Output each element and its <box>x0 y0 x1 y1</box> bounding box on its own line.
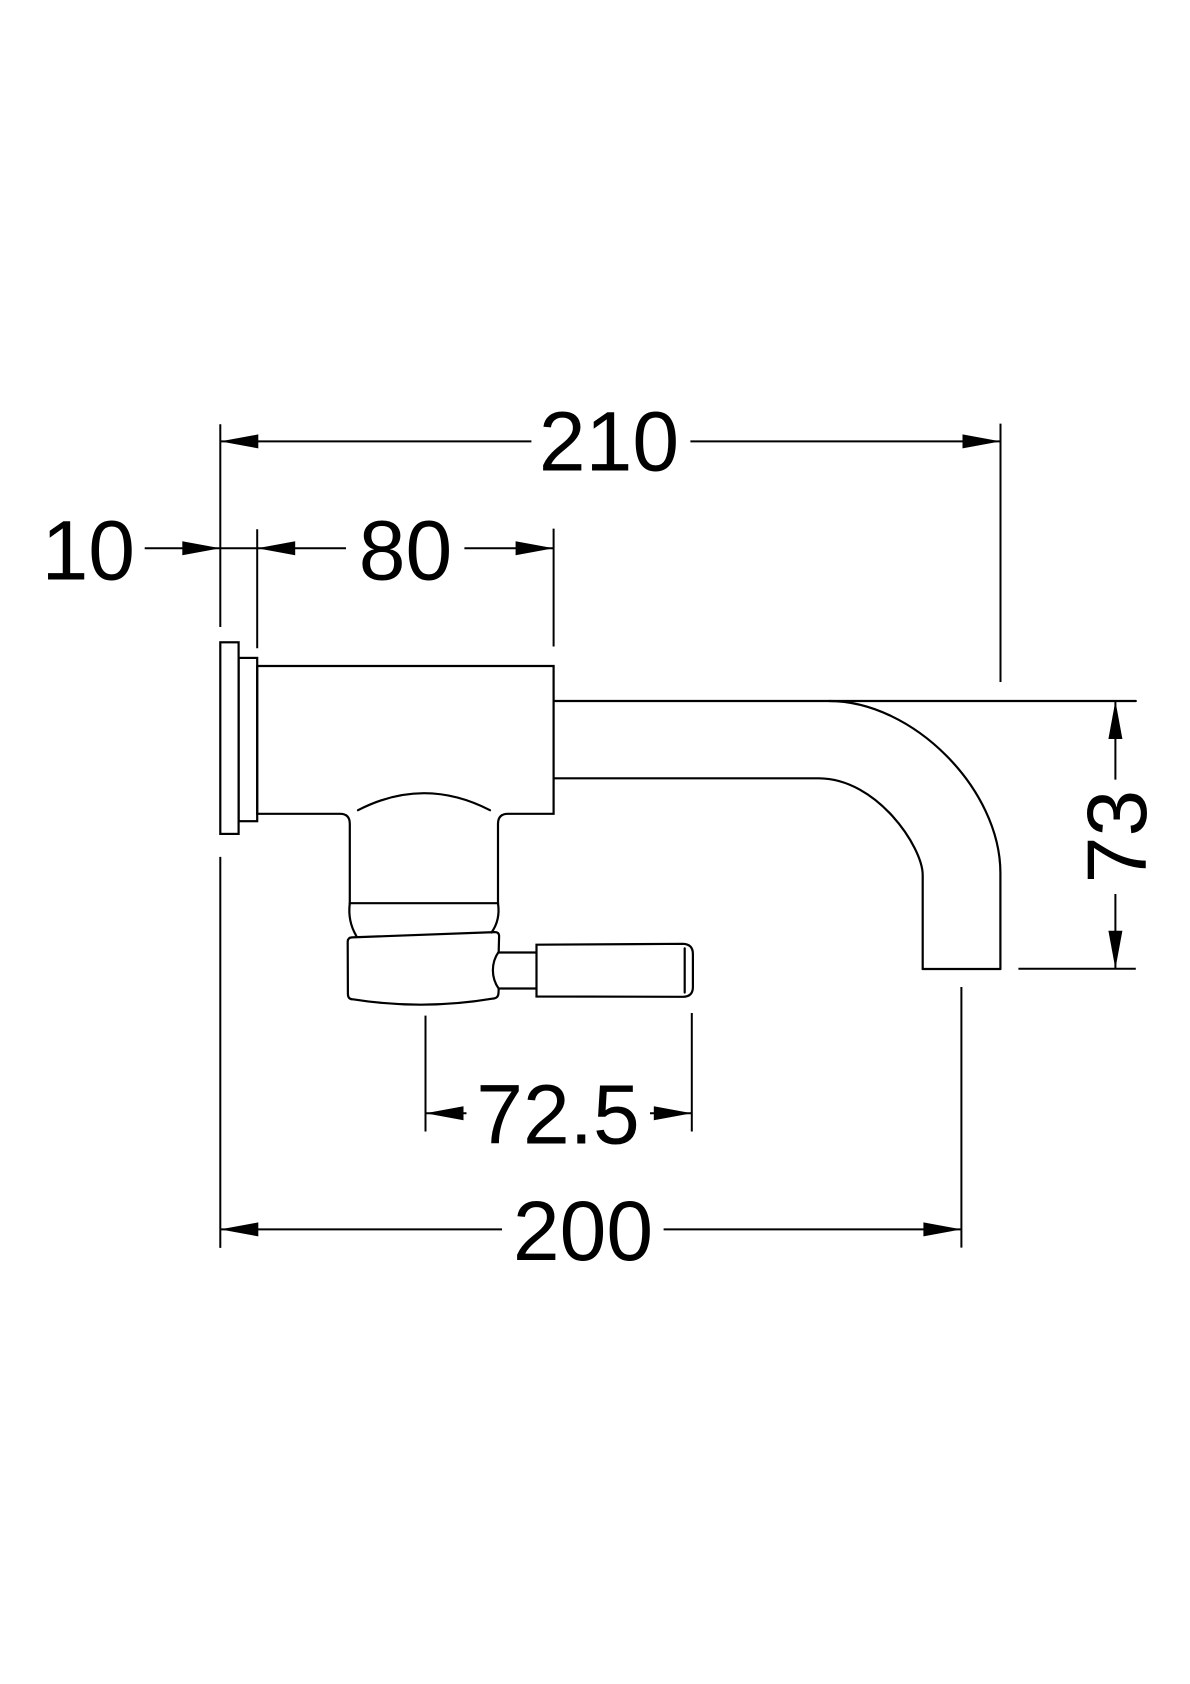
dim line 200 <box>220 1228 961 1230</box>
valve body outline <box>257 666 553 903</box>
flange collar <box>239 658 258 821</box>
extension line outlet bottom (y=968.7) <box>1018 968 1135 970</box>
extension line wall face (x=220) <box>219 424 221 1248</box>
extension line collar face (x=257) <box>256 529 258 648</box>
svg-text:72.5: 72.5 <box>476 1067 640 1161</box>
arrow 72.5 right <box>654 1106 692 1120</box>
dim line 73 <box>1114 701 1116 969</box>
arrow 200 left <box>220 1222 258 1236</box>
spout outlet face <box>923 968 1001 970</box>
arrow 80 left <box>257 541 295 555</box>
extension line handle tip (x=691.8) <box>691 1013 693 1132</box>
extension line spout outer (x=1000.5) <box>1000 424 1002 682</box>
neck-to-valve joint line <box>350 902 498 904</box>
extension line handle pivot (x=425.5) <box>425 1016 427 1132</box>
valve escutcheon (lower body) <box>348 932 499 1005</box>
dim line 10/80 <box>145 547 554 549</box>
handle stem <box>499 953 537 989</box>
extension line outlet centre (x=961.4) <box>960 987 962 1248</box>
arrow 200 right <box>923 1222 961 1236</box>
spout outer bend <box>829 701 1000 969</box>
handle grip <box>537 944 693 997</box>
svg-text:73: 73 <box>1070 790 1164 883</box>
svg-text:80: 80 <box>359 503 452 597</box>
extension line body right face (x=553.6) <box>553 529 555 647</box>
arrow 72.5 left <box>426 1106 464 1120</box>
right bulge profile <box>492 903 499 932</box>
svg-text:200: 200 <box>513 1184 653 1278</box>
cartridge dome arc (hidden top of valve) <box>358 793 490 810</box>
arrow 210 left <box>220 434 258 448</box>
dim line 210 <box>220 440 1000 442</box>
left bulge profile <box>349 903 356 936</box>
arrow 73 down <box>1108 931 1122 969</box>
svg-text:210: 210 <box>539 395 679 489</box>
arrow 10 right-pointing <box>182 541 220 555</box>
dim line 72.5 <box>426 1112 692 1114</box>
arrow 80 right <box>516 541 554 555</box>
spout bottom edge and inner bend <box>554 778 923 969</box>
arrow 210 right <box>963 434 1001 448</box>
wall plate (outer flange) <box>220 642 238 834</box>
handle grip cap seam <box>684 948 686 992</box>
arrow 73 up <box>1108 701 1122 739</box>
svg-text:10: 10 <box>42 503 135 597</box>
spout top edge + extension to 73 dim <box>554 700 1136 702</box>
